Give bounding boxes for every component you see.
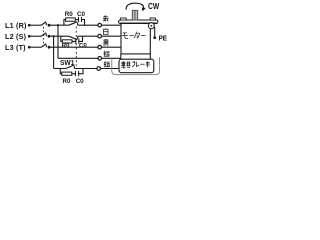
- motor lid ear right: [150, 18, 155, 20]
- connector circle black lead: [98, 45, 102, 49]
- wire L2 terminal to main switch: [30, 35, 41, 37]
- svg-text:R0: R0: [62, 43, 70, 49]
- terminal dot L2: [28, 35, 31, 38]
- brake box: [119, 59, 154, 72]
- capacitor C0 (mid) gap: [76, 40, 78, 43]
- connector circle white lead: [98, 34, 102, 38]
- SW1 pole 3 blade: [66, 65, 74, 69]
- svg-text:R0: R0: [63, 78, 71, 85]
- motor shaft: [132, 10, 137, 20]
- lower brake wire to SW1 pole3: [54, 68, 66, 70]
- motor-brake connector right: [149, 54, 151, 59]
- motor lid cap: [119, 20, 158, 24]
- motor unit outer housing outline: [112, 57, 160, 74]
- capacitor C0 (bottom) plates: [75, 71, 78, 77]
- main switch pole 2 fixed tick: [45, 34, 47, 36]
- PE screw on motor: [148, 23, 154, 29]
- rotation arrow head: [142, 8, 146, 12]
- label dai-dai (orange) kanji 1: [104, 51, 110, 57]
- motor body box: [121, 23, 150, 54]
- svg-text:PE: PE: [159, 33, 168, 42]
- svg-text:L3 (T): L3 (T): [5, 43, 26, 52]
- junction dot L1 brake tap: [57, 24, 59, 26]
- upper brake wire: [58, 57, 121, 59]
- main switch pole 1 blade: [41, 22, 46, 26]
- main switch gang link dashed: [43, 27, 45, 47]
- motor lid ear left: [121, 18, 127, 20]
- wire L3 terminal to main switch: [30, 46, 41, 48]
- svg-text:C0: C0: [77, 11, 85, 18]
- svg-text:CW: CW: [148, 1, 159, 11]
- SW1 pole 1 fixed tick: [77, 23, 79, 26]
- PE terminal dot: [153, 36, 156, 39]
- resistor R0 (top): [66, 18, 76, 21]
- capacitor C0 (top) gap: [79, 18, 81, 21]
- wire L3 straight to motor: [50, 46, 121, 48]
- wire L2 after SW1 pole2 to motor: [78, 35, 121, 37]
- motor-brake connector left: [120, 54, 122, 59]
- junction dot L2 brake tap: [53, 35, 55, 37]
- main switch pole 3 fixed tick: [45, 45, 47, 47]
- svg-text:C0: C0: [76, 78, 84, 85]
- svg-text:L1 (R): L1 (R): [5, 21, 27, 30]
- terminal dot L3: [28, 46, 31, 49]
- wire L2 to SW1 pole2: [50, 35, 69, 37]
- motor lid inner line: [120, 21, 157, 23]
- resistor R0 (mid): [62, 40, 72, 43]
- svg-text:R0: R0: [65, 11, 73, 18]
- brake text (denji bure-ki): [121, 61, 150, 68]
- label kuro (black) kanji: [103, 39, 108, 46]
- SW1 pole 2 blade (below line): [69, 36, 78, 40]
- PE wire: [153, 27, 156, 37]
- capacitor C0 (bottom) gap: [76, 72, 78, 75]
- SW1 gang link dashed: [75, 27, 77, 66]
- rotation arrow CW arc: [126, 3, 144, 9]
- resistor R0 (bottom): [62, 72, 72, 75]
- connector circle orange lead 1: [98, 57, 102, 61]
- shaft mid shading: [134, 11, 136, 20]
- label aka (red) kanji: [103, 15, 109, 21]
- terminal dot L1: [28, 24, 31, 27]
- svg-text:SW1: SW1: [60, 60, 74, 67]
- snubber 2 bracket (across SW1 pole2, below): [61, 36, 83, 41]
- main switch pole 1 fixed tick: [45, 23, 47, 25]
- snubber 3 bracket (across SW1 pole3, below): [60, 69, 83, 74]
- SW1 pole 3 fixed tick: [73, 66, 75, 69]
- connector circle red lead: [98, 23, 102, 27]
- capacitor C0 (mid) plates: [76, 38, 79, 44]
- main switch terminal dot L3: [48, 46, 51, 49]
- SW1 pole 1 blade: [69, 22, 78, 26]
- svg-text:C0: C0: [79, 43, 87, 49]
- brake tap wire from L1 down: [57, 25, 59, 58]
- snubber 1 bracket (across SW1 pole1): [64, 20, 85, 26]
- capacitor C0 (top) plates: [79, 17, 82, 22]
- main switch pole 2 blade: [41, 33, 46, 37]
- svg-text:L2 (S): L2 (S): [5, 32, 27, 41]
- wire L1 terminal to main switch: [30, 24, 41, 26]
- lower brake wire after SW1 to brake: [75, 68, 119, 70]
- main switch terminal dot L2: [48, 35, 51, 38]
- SW1 pole 2 fixed tick: [77, 36, 79, 39]
- motor text (mo-ta-): [122, 32, 146, 39]
- connector circle orange lead 2: [97, 67, 101, 71]
- label shiro (white) kanji: [103, 28, 108, 34]
- wire L1 to SW1 pole1: [50, 24, 69, 26]
- label dai-dai (orange) kanji 2: [104, 61, 110, 67]
- main switch terminal dot L1: [48, 24, 51, 27]
- wire L1 after SW1 pole1 to motor: [78, 24, 121, 26]
- brake tap wire from L2 down: [53, 36, 55, 68]
- main switch pole 3 blade: [41, 44, 46, 48]
